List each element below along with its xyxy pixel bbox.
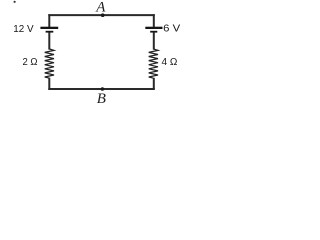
wire: resistor R1 down to bottom rail: [48, 78, 50, 90]
svg-text:6 V: 6 V: [163, 23, 180, 35]
wire: battery V2 negative terminal down to resistor R2: [153, 32, 155, 49]
wire: left branch from top rail down to battery V1: [48, 14, 50, 27]
svg-text:A: A: [95, 0, 106, 15]
wire: battery V1 negative terminal down to resistor R1: [48, 32, 50, 49]
svg-text:B: B: [97, 91, 106, 107]
battery V1 (12 V) negative plate: [46, 31, 54, 33]
battery V2 (6 V) positive plate: [145, 27, 162, 29]
node B junction dot: [101, 87, 105, 91]
svg-text:2 Ω: 2 Ω: [23, 56, 38, 68]
svg-text:12 V: 12 V: [13, 23, 33, 35]
battery V2 (6 V) negative plate: [150, 31, 157, 33]
battery V1 (12 V) positive plate: [40, 27, 58, 29]
wire: top rail (node A rail between the two batteries): [48, 14, 155, 16]
node A junction dot: [101, 13, 105, 17]
svg-text:4 Ω: 4 Ω: [162, 56, 178, 68]
wire: bottom rail (node B rail between the two resistors): [48, 88, 155, 90]
wire: resistor R2 down to bottom rail: [153, 78, 155, 90]
wire: right branch from top rail down to battery V2: [153, 14, 155, 27]
resistor R1 (2 ohm) zigzag: [45, 49, 54, 78]
resistor R2 (4 ohm) zigzag: [149, 49, 158, 78]
